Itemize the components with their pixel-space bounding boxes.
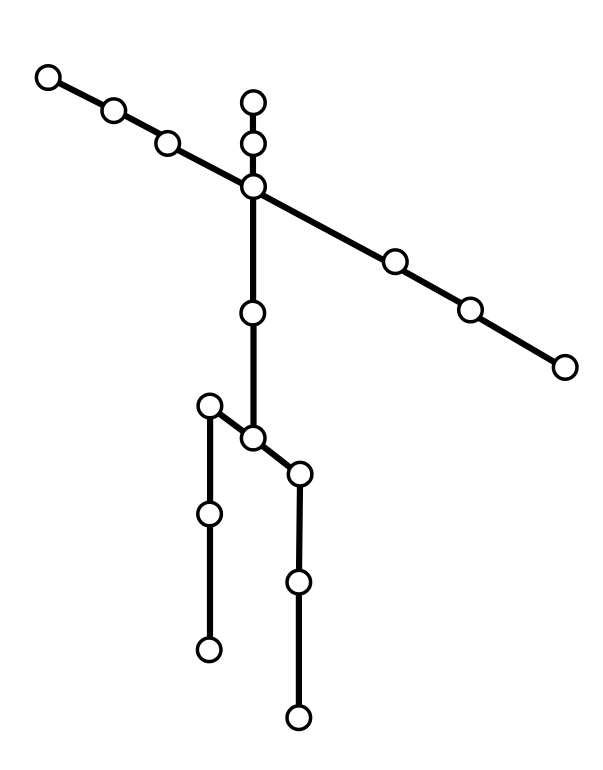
node 12 pelvis center xyxy=(241,426,265,450)
wire hip left segment node12-node11 xyxy=(210,407,253,439)
node 14 left knee xyxy=(198,502,222,526)
wire right-leg shin segment node16-node17 xyxy=(296,582,302,718)
wire head lower segment node6-node5 xyxy=(250,144,256,187)
node 7 right shoulder xyxy=(384,250,408,274)
wire left-arm inner segment node6-node3 xyxy=(168,145,254,190)
wire right-arm outer segment node8-node9 xyxy=(471,313,566,368)
wire head upper segment node5-node4 xyxy=(250,103,256,144)
node 2 left elbow xyxy=(102,99,126,123)
wire right-arm middle segment node7-node8 xyxy=(395,266,470,308)
node 6 neck center xyxy=(242,175,266,199)
node 9 right wrist xyxy=(553,356,577,380)
node 16 right knee xyxy=(287,570,311,594)
wire spine upper segment node6-node10 xyxy=(250,187,256,314)
node 11 left hip xyxy=(198,394,222,418)
wire left-arm outer segment node2-node1 xyxy=(48,78,114,111)
node 4 head top xyxy=(242,91,266,115)
node 15 left ankle xyxy=(197,638,221,662)
node 10 spine mid xyxy=(241,301,265,325)
wire right-leg thigh segment node13-node16 xyxy=(299,474,300,582)
wire right-arm inner segment node6-node7 xyxy=(254,190,396,266)
wire hip right segment node12-node13 xyxy=(253,439,300,476)
node 8 right elbow xyxy=(459,298,483,322)
node 3 left shoulder xyxy=(156,132,180,156)
node 1 left wrist xyxy=(36,66,60,90)
node 13 right hip xyxy=(288,462,312,486)
wire left-leg shin segment node14-node15 xyxy=(207,514,213,650)
wire spine lower segment node10-node12 xyxy=(250,313,256,438)
wire left-leg thigh segment node11-node14 xyxy=(207,406,213,514)
node 17 right ankle xyxy=(287,706,311,730)
wire left-arm middle segment node3-node2 xyxy=(114,110,168,139)
node 5 head mid xyxy=(242,132,266,156)
